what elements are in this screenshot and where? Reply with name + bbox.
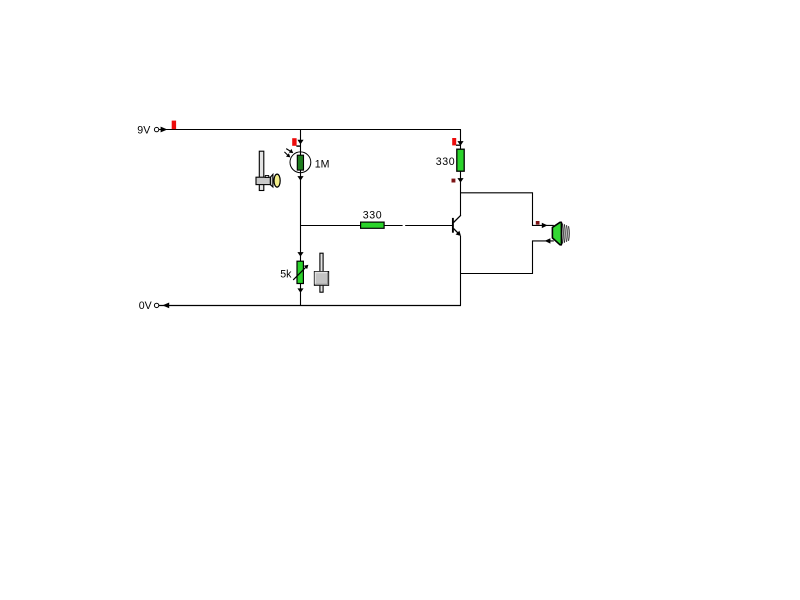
terminal 9V [154, 127, 158, 131]
speaker sound arc 4 [568, 226, 571, 241]
current arrow from speaker [545, 238, 551, 243]
wire collector to speaker top [461, 193, 554, 226]
voltage indicator red bar above 330 [452, 138, 460, 145]
svg-text:0V: 0V [139, 300, 153, 312]
pot 5k body [297, 261, 303, 283]
current arrow to speaker [542, 223, 548, 228]
current arrow above pot [297, 252, 303, 257]
wire through LDR [300, 152, 302, 173]
current arrow on 0V rail [162, 303, 169, 309]
LDR light arrow 2 [284, 152, 290, 158]
pot arrow diagonal [293, 265, 308, 280]
current arrow below LDR [297, 176, 303, 181]
transistor Q1 [453, 215, 461, 236]
LDR light arrow 1 [286, 149, 293, 154]
voltage indicator dark red at speaker [536, 221, 540, 225]
torch lamp [256, 151, 280, 190]
voltage indicator dark red below 330 [452, 179, 456, 183]
pot slider knob [314, 272, 328, 286]
svg-text:330: 330 [363, 210, 382, 222]
speaker sound arc 1 [562, 223, 565, 243]
pot slider track [320, 253, 323, 292]
current arrow below pot [297, 288, 303, 293]
resistor 330 vertical [457, 149, 464, 171]
resistor 330 horizontal [361, 222, 385, 228]
current arrow below 330 [457, 178, 463, 183]
wire 0V rail [159, 305, 462, 307]
svg-text:5k: 5k [280, 269, 292, 281]
speaker sound arc 2 [564, 224, 567, 242]
svg-text:330: 330 [436, 156, 455, 168]
wire LDR branch vertical [300, 130, 302, 226]
wire emitter to speaker bottom [461, 241, 554, 274]
current arrow above 330 [457, 141, 463, 146]
wire collector vertical [460, 171, 462, 215]
wire emitter vertical [460, 236, 462, 306]
svg-text:1M: 1M [315, 158, 330, 170]
wire right branch vertical top [460, 130, 462, 150]
speaker sound arc 3 [566, 225, 569, 242]
LDR body green [297, 155, 303, 170]
current arrow above LDR [297, 140, 303, 145]
voltage indicator red bar above LDR [292, 138, 300, 146]
voltage indicator red bar at 9V rail [172, 121, 176, 130]
wire pot branch vertical [300, 226, 302, 306]
wire top 9V rail [159, 129, 462, 131]
svg-text:9V: 9V [137, 125, 151, 137]
current arrow on 9V rail [161, 127, 168, 133]
terminal 0V [154, 303, 158, 307]
wire base (right part) [405, 225, 452, 227]
wire base (left part) [301, 225, 403, 227]
speaker LS1 [552, 222, 561, 245]
LDR circle [290, 152, 311, 173]
